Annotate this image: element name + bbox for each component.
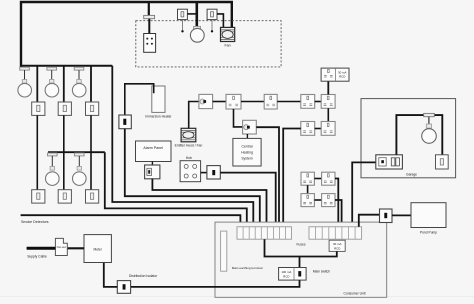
alarm power unit	[145, 165, 160, 179]
main switch unit 100mA RCD	[279, 268, 307, 281]
cord and dot below switch A	[182, 20, 184, 31]
svg-text:Hob: Hob	[186, 156, 192, 160]
svg-text:System: System	[241, 156, 252, 160]
light switch 1c	[86, 102, 99, 115]
meter	[84, 235, 111, 263]
cord and dot below switch B	[211, 20, 213, 31]
wire G2a-G2b	[315, 128, 322, 130]
strapper wires down to row 2 switches	[36, 115, 38, 189]
alarm panel	[136, 141, 172, 162]
svg-text:RCD: RCD	[283, 274, 289, 278]
svg-text:Immersion Heater: Immersion Heater	[145, 115, 172, 119]
wire S4 to central heating	[246, 134, 248, 138]
emitter hood fan	[181, 128, 196, 142]
ring return G2a to consumer unit	[283, 129, 301, 227]
wire G1b-G2b	[327, 108, 329, 121]
double socket D1	[226, 94, 241, 109]
pendant lamp 2b	[78, 156, 80, 167]
ceiling rose 2a	[48, 153, 58, 156]
lighting circuit 2 run to consumer unit	[105, 152, 247, 227]
socket grid lower L1a	[301, 172, 314, 185]
ring L1b to consumer unit	[335, 179, 338, 227]
immersion element stub	[125, 84, 154, 115]
wire top main feed	[21, 2, 232, 67]
socket with plug S1	[199, 94, 213, 108]
ceiling rose top bathroom	[144, 15, 155, 18]
ring wire	[277, 101, 301, 103]
svg-text:RCD: RCD	[339, 75, 345, 79]
wire rose to connector box	[148, 19, 150, 34]
svg-text:Heating: Heating	[241, 150, 253, 154]
svg-text:Fan: Fan	[224, 44, 230, 48]
light switch 2b	[58, 190, 71, 203]
garage lighting loop	[396, 115, 442, 155]
wire switch to pump	[392, 214, 411, 216]
fuse bank 1	[237, 227, 292, 239]
cutout	[55, 238, 67, 255]
switch A bathroom	[178, 9, 188, 19]
lamp holder bathroom	[194, 26, 201, 29]
cooker circuit run to consumer unit	[220, 173, 275, 227]
garage outline	[361, 99, 456, 178]
svg-text:Alarm Panel: Alarm Panel	[143, 146, 163, 150]
svg-text:Central: Central	[242, 144, 253, 148]
svg-text:Consumer Unit: Consumer Unit	[344, 291, 366, 295]
wire hob to cooker switch	[201, 172, 207, 174]
garage supply from consumer unit	[352, 162, 376, 226]
lighting bus row 1	[21, 65, 112, 67]
garage consumer unit	[376, 155, 403, 169]
spur drop from double socket	[234, 109, 243, 127]
immersion heater	[152, 86, 165, 112]
light switch 1a	[32, 102, 45, 115]
wire panel to psu	[151, 162, 153, 166]
pendant lamp 1a	[24, 70, 26, 79]
wire drop to ceiling rose top	[148, 2, 150, 15]
pond pump switch	[380, 209, 393, 223]
ring L2b to consumer unit	[335, 200, 342, 227]
hob	[180, 161, 201, 182]
svg-text:Supply Cable: Supply Cable	[27, 254, 47, 258]
wire emitter fan to ring	[189, 102, 199, 129]
lighting circuit 1 run to consumer unit	[112, 66, 253, 227]
svg-text:RCD: RCD	[334, 246, 340, 250]
wire S4 to consumer unit	[256, 127, 279, 227]
cooker switch	[207, 166, 220, 179]
extractor fan	[221, 27, 235, 41]
rcd socket unit 30mA	[321, 68, 349, 81]
svg-text:Meter: Meter	[93, 247, 102, 251]
socket grid G1b	[321, 95, 335, 109]
rcd 30mA in consumer unit	[329, 240, 345, 251]
svg-text:Emitter Hood / Fan: Emitter Hood / Fan	[175, 144, 203, 148]
wire L1a-L2a	[307, 185, 309, 193]
supply cable	[27, 247, 56, 250]
pendant lamp 1c	[78, 70, 80, 79]
socket grid L2b	[322, 194, 335, 207]
svg-text:Main switch: Main switch	[313, 270, 330, 274]
dashed room boundary (bathroom)	[136, 21, 281, 67]
alarm circuit run to consumer unit	[152, 179, 266, 227]
socket S3	[264, 94, 277, 109]
fuse bank 2	[309, 227, 362, 239]
wire to main switch	[299, 257, 301, 268]
pond pump circuit from consumer unit	[359, 215, 380, 227]
distribution isolator	[117, 281, 130, 294]
main earthing terminal bar	[221, 231, 227, 271]
svg-text:Pond Pump: Pond Pump	[420, 230, 437, 234]
garage ceiling rose	[424, 113, 435, 116]
immersion switch	[119, 115, 131, 129]
ceiling rose 1c	[74, 67, 84, 70]
socket grid G2b	[321, 122, 335, 136]
wire L1a-L1b	[314, 178, 321, 180]
immersion circuit run to consumer unit	[125, 129, 260, 227]
garage light switch	[436, 155, 449, 169]
wire meter to isolator	[104, 263, 118, 287]
light switch 2a	[32, 190, 45, 203]
pond pump	[411, 203, 446, 228]
svg-text:Smoke Detectors: Smoke Detectors	[21, 220, 49, 224]
ring wire	[213, 101, 226, 103]
consumer unit box	[215, 222, 387, 297]
pendant lamp 1b	[51, 70, 53, 79]
lamp bathroom	[190, 28, 204, 42]
wire L2a-L2b	[314, 199, 321, 201]
socket grid L1b	[322, 172, 335, 185]
wire switch B to fan	[217, 14, 223, 28]
pendant lamp 2a	[51, 156, 53, 167]
smoke detector circuit wire	[21, 215, 241, 227]
wire cutout to meter	[67, 247, 84, 249]
light switch 2c	[86, 190, 99, 203]
ceiling rose 1b	[47, 67, 57, 70]
socket with plug S4	[243, 120, 257, 134]
svg-text:Main earthing terminal: Main earthing terminal	[232, 266, 263, 270]
wire G1a-G1b	[315, 101, 322, 103]
switch B bathroom fan	[207, 9, 217, 19]
wire rcd socket drop	[327, 81, 329, 94]
svg-text:Distribution Isolator: Distribution Isolator	[129, 274, 158, 278]
svg-text:Fuses: Fuses	[297, 242, 306, 246]
socket grid G2a	[301, 122, 315, 136]
svg-text:Garage: Garage	[406, 172, 417, 176]
ring wire	[241, 101, 264, 103]
central heating system	[233, 138, 261, 166]
lighting bus row 2	[48, 151, 105, 153]
meter tails	[131, 280, 300, 287]
ceiling rose 1a	[20, 67, 30, 70]
socket grid L2a	[301, 194, 314, 207]
socket grid G1a	[301, 95, 315, 109]
ceiling rose 2b	[75, 153, 85, 156]
switch drops row 1	[36, 66, 38, 102]
internal feed wires	[265, 239, 337, 256]
connector box (4 terminals)	[144, 34, 156, 53]
pendant drop bathroom lamp	[196, 2, 199, 26]
light switch 1b	[58, 102, 71, 115]
wire switch A to pendant	[187, 13, 195, 15]
garage pendant	[428, 117, 430, 124]
svg-text:Cut-out: Cut-out	[57, 245, 66, 249]
